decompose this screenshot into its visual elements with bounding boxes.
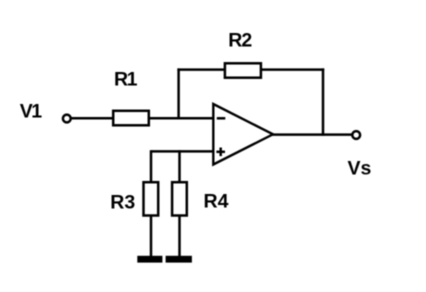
wire feedback down to output bbox=[322, 68, 325, 135]
wire R4 to ground bbox=[178, 215, 181, 257]
svg-text:R4: R4 bbox=[204, 191, 229, 213]
resistor R3 bbox=[144, 182, 159, 215]
input terminal V1 (open circle) bbox=[63, 115, 71, 123]
op-amp U1 bbox=[213, 104, 273, 165]
wire feedback vertical up bbox=[177, 68, 180, 119]
svg-text:R3: R3 bbox=[110, 191, 135, 213]
output terminal Vs (open circle) bbox=[352, 131, 360, 139]
wire input to R1 bbox=[72, 117, 115, 120]
plus sign (non-inverting input) bbox=[216, 148, 225, 157]
svg-text:R1: R1 bbox=[114, 68, 138, 90]
ground (under R3) bbox=[137, 256, 162, 263]
wire down to R4 bbox=[178, 150, 181, 183]
wire R1 to op-amp inverting input bbox=[149, 117, 214, 120]
resistor R4 bbox=[172, 182, 187, 215]
minus sign (inverting input) bbox=[217, 117, 226, 120]
wire non-inverting input bbox=[151, 150, 214, 153]
wire op-amp output bbox=[272, 133, 352, 136]
svg-text:Vs: Vs bbox=[348, 158, 372, 180]
svg-text:R2: R2 bbox=[228, 30, 252, 52]
resistor R2 bbox=[225, 63, 261, 77]
svg-text:V1: V1 bbox=[20, 101, 42, 123]
wire down to R3 bbox=[150, 150, 153, 183]
wire feedback top to R2 bbox=[177, 68, 226, 71]
wire R3 to ground bbox=[150, 215, 153, 257]
ground (under R4) bbox=[166, 256, 192, 263]
wire R2 to output node bbox=[261, 68, 324, 71]
resistor R1 bbox=[113, 111, 149, 126]
